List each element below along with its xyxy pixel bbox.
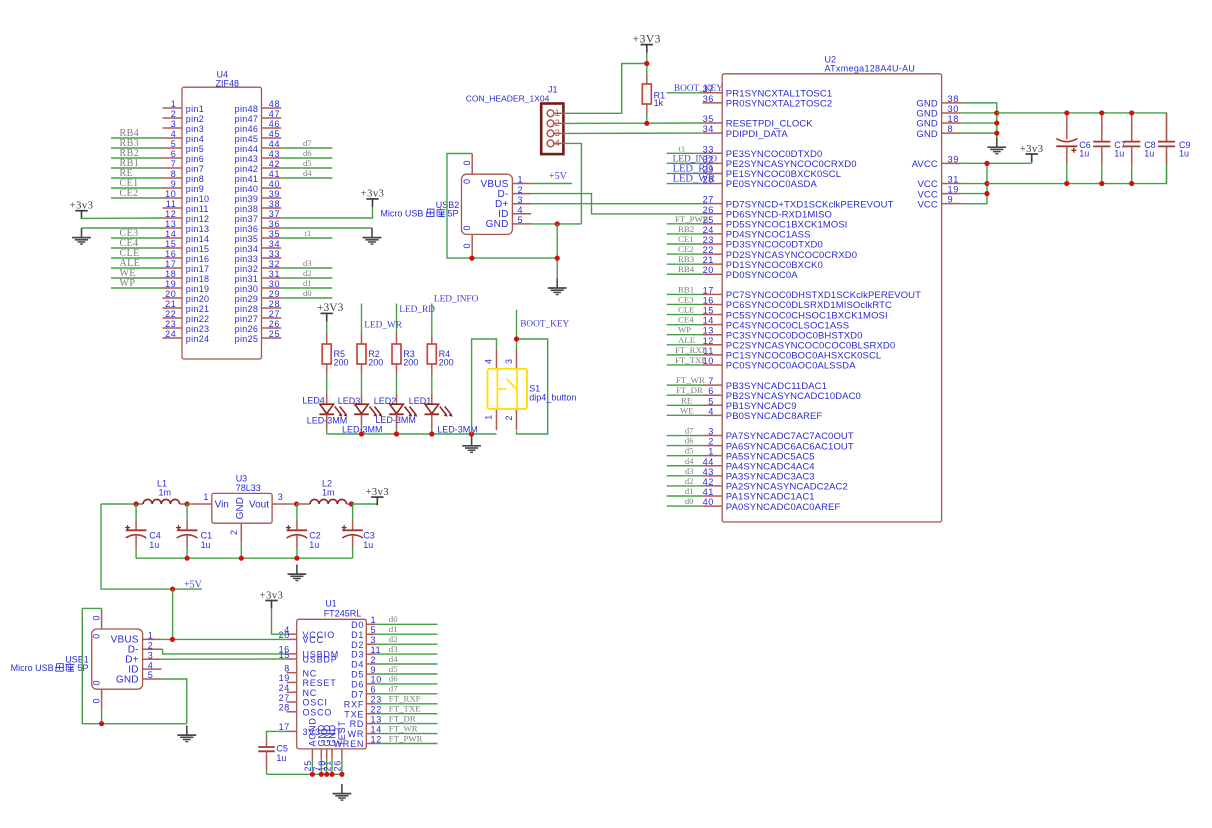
svg-text:d0: d0 [303,288,312,298]
svg-text:41: 41 [703,487,714,497]
wire net CE4 to U2 [667,324,703,326]
IC U4 ZIF48 body [182,87,262,359]
svg-text:d4: d4 [389,654,398,664]
svg-text:d5: d5 [389,664,398,674]
wire to resistor R4 [431,304,433,335]
junction LED rail [359,431,364,436]
junction cap top [1064,110,1069,115]
svg-text:28: 28 [269,299,280,309]
svg-text:FT_DR: FT_DR [676,385,703,395]
svg-text:CE1: CE1 [678,234,694,244]
junction rail/ground [469,431,474,436]
svg-text:1u: 1u [1179,149,1189,159]
svg-text:GND: GND [235,497,246,519]
wire net FT_WR from U1 pin 14 [376,733,438,735]
svg-text:19: 19 [279,673,290,683]
svg-text:200: 200 [334,357,349,367]
wire net CE2 to U2 [667,253,703,255]
svg-text:40: 40 [269,179,280,189]
svg-text:3: 3 [371,635,377,645]
svg-text:16: 16 [703,295,714,305]
svg-text:PD0SYNCOC0A: PD0SYNCOC0A [726,270,798,281]
wire U1 bottom gnd rail [267,773,342,775]
svg-text:GND: GND [486,219,509,230]
svg-text:1m: 1m [159,487,172,497]
svg-text:OSCI: OSCI [303,698,328,708]
wire USB1 D- to U1 USBDM [161,649,286,654]
svg-text:27: 27 [279,693,290,703]
svg-text:7: 7 [708,376,714,386]
svg-text:d7: d7 [389,684,398,694]
ground symbol below USB1 [186,726,188,736]
svg-text:4: 4 [171,129,177,139]
resistor R3 200 [392,334,401,374]
wire net d0 from U1 pin 1 [376,623,438,625]
wire +3v3 to U1 VCCIO [272,609,287,635]
wire net CE4 to U4 pin 15 [111,247,163,249]
svg-text:15: 15 [703,306,714,316]
wire net d5 from U1 pin 9 [376,673,438,675]
svg-text:ZIF48: ZIF48 [216,78,240,88]
svg-text:26: 26 [332,760,342,771]
svg-text:d1: d1 [685,486,694,496]
svg-text:D2: D2 [351,640,364,650]
capacitor C5 1u [258,731,286,774]
USB1 pin stubs and numbers [111,631,162,686]
wire L1 to U3 Vin [187,503,192,505]
svg-text:1u: 1u [201,540,211,550]
USB2 shield mount pin top [471,154,473,175]
ground symbol at U4 pin36 [371,228,373,238]
svg-text:RD: RD [350,719,365,729]
junction shield/gnd [469,256,474,261]
wire net FT_TXE from U1 pin 22 [376,713,438,715]
junction GND38/30 [994,110,999,115]
wire net d6 to U2 [667,445,703,447]
svg-text:24: 24 [279,683,290,693]
wire net CLE to U4 pin 16 [111,257,163,259]
svg-text:NC: NC [303,668,318,678]
U1 bottom pin numbers rotated [303,760,343,771]
wire USB1 GND to ground [161,679,186,724]
svg-text:pin6: pin6 [186,154,204,164]
junction VCC31 [984,181,989,186]
wire net WP to U2 [667,334,703,336]
wire net FT_PWR from U1 pin 12 [376,743,438,745]
svg-text:d6: d6 [389,674,398,684]
svg-text:pin39: pin39 [235,194,259,204]
svg-text:d3: d3 [389,644,398,654]
svg-text:24: 24 [703,225,714,235]
wire GND down to ground [556,224,558,279]
wire net CE1 to U2 [667,243,703,245]
U2 left pin numbers [703,84,714,507]
junction Vout [294,501,299,506]
svg-text:ATxmega128A4U-AU: ATxmega128A4U-AU [825,64,916,74]
svg-text:pin11: pin11 [186,204,209,214]
junction BOOT_KEY/S1 pin3 [514,336,519,341]
junction L2 right [349,501,354,506]
wire net FT_TXE to U2 [667,364,703,366]
connector USB2 Micro USB body [462,174,513,234]
wire J1 pin2 to U2 pin35 RESET [563,122,702,124]
svg-text:pin26: pin26 [235,324,259,334]
svg-text:pin5: pin5 [186,144,204,154]
wire LED gnd rail [327,433,497,435]
svg-text:d1: d1 [303,278,312,288]
svg-text:pin7: pin7 [186,164,204,174]
svg-text:VCC: VCC [917,199,937,210]
svg-text:pin1: pin1 [186,104,204,114]
resistor R5 200 [322,334,331,374]
svg-text:d4: d4 [303,168,312,178]
wire +5V down to USB1 VBUS [172,589,174,639]
wire net CE3 to U2 [667,303,703,305]
wire net FT_DR to U2 [667,394,703,396]
wire net d0 from U4 [281,297,332,299]
junction cap top [1099,110,1104,115]
resistor R1 [646,74,648,84]
ground symbol at U4 pin13 [81,228,83,238]
wire net d1 to U2 [667,495,703,497]
svg-text:LED_WR: LED_WR [673,174,716,185]
svg-text:pin34: pin34 [235,244,259,254]
svg-text:PC0SYNCOC0AOC0ALSSDA: PC0SYNCOC0AOC0ALSSDA [726,361,856,372]
svg-text:45: 45 [269,129,280,139]
wire net CE1 to U4 pin 9 [111,187,163,189]
svg-text:TEST: TEST [337,720,347,746]
wire U2 GND pins to ground [962,103,997,138]
svg-text:8: 8 [171,169,177,179]
svg-text:27: 27 [269,309,280,319]
svg-text:25: 25 [269,329,280,339]
svg-text:5: 5 [518,215,523,225]
junction cap bottom [1064,181,1069,186]
wire net CLE to U2 [667,314,703,316]
svg-text:RB1: RB1 [678,284,694,294]
U1 right pin names [333,620,364,749]
wire net FT_RXF from U1 pin 23 [376,703,438,705]
wire U2 AVCC/VCC pins [962,162,1032,164]
wire net d4 from U1 pin 2 [376,663,438,665]
svg-text:D4: D4 [351,660,364,670]
svg-text:PA0SYNCADC0AC0AREF: PA0SYNCADC0AC0AREF [726,502,841,513]
junction U3 GND bottom [239,556,244,561]
svg-text:36: 36 [703,94,714,104]
wire net FT_PWR to U2 [667,223,703,225]
wire U3 GND to rail [240,543,242,558]
svg-text:pin37: pin37 [235,214,259,224]
capacitor C4 1u polarized [125,504,146,558]
svg-text:CE2: CE2 [678,244,694,254]
svg-text:+3V3: +3V3 [317,302,344,314]
svg-text:26: 26 [269,319,280,329]
svg-text:44: 44 [703,457,714,467]
U1 right pin stubs [366,624,376,743]
junction GND/shield [555,256,560,261]
ground symbol below USB2 [556,278,558,288]
svg-text:18: 18 [948,114,959,124]
svg-text:pin47: pin47 [235,114,259,124]
svg-text:LED3: LED3 [338,396,361,406]
svg-text:U1: U1 [325,599,337,609]
wire net FT_RXF to U2 [667,354,703,356]
svg-text:0: 0 [462,243,472,248]
svg-text:42: 42 [703,477,714,487]
U3 Vin pin [192,503,212,505]
junction USB2 GND [555,221,560,226]
svg-text:3: 3 [518,195,523,205]
wire S1 left loop to gnd rail [472,339,497,434]
wire net d4 from U4 [281,177,332,179]
svg-text:0: 0 [91,680,101,685]
svg-text:41: 41 [269,169,280,179]
resistor R4 200 [427,334,436,374]
wire USB1 VBUS to U1 VCC [161,638,286,640]
junction VCC19 [984,191,989,196]
svg-text:46: 46 [269,119,280,129]
svg-text:pin45: pin45 [235,134,259,144]
svg-text:pin15: pin15 [186,244,210,254]
wire VCC top rail [997,113,1167,141]
svg-text:0: 0 [462,225,472,230]
svg-text:35: 35 [269,229,280,239]
svg-text:30: 30 [269,279,280,289]
svg-text:3: 3 [148,650,153,660]
svg-text:4: 4 [555,138,560,149]
svg-text:1u: 1u [309,540,319,550]
ground symbol right of U2 [996,138,998,148]
svg-text:d7: d7 [303,138,312,148]
wire +5V input from USB1 VBUS [101,503,136,505]
svg-text:78L33: 78L33 [236,483,261,493]
wire net RB4 to U4 pin 4 [111,137,163,139]
svg-text:pin44: pin44 [235,144,259,154]
svg-text:t1: t1 [679,143,686,153]
svg-text:23: 23 [165,319,176,329]
svg-text:pin18: pin18 [186,274,210,284]
wire net RE to U4 pin 8 [111,177,163,179]
svg-text:pin46: pin46 [235,124,259,134]
USB2 shield mount pin bottom [471,234,473,254]
svg-text:5P: 5P [78,663,89,673]
U4 right pins 48-25 stubs [262,108,282,338]
svg-text:pin43: pin43 [235,154,259,164]
svg-text:6: 6 [708,386,714,396]
svg-text:FT_WR: FT_WR [389,723,418,733]
svg-text:D1: D1 [351,630,364,640]
wire net LED_RD to U2 [667,172,703,174]
svg-text:d7: d7 [685,426,694,436]
svg-text:pin22: pin22 [186,314,210,324]
capacitor C3 1u polarized [342,504,363,558]
svg-text:1: 1 [371,615,377,625]
svg-text:WR: WR [348,729,365,739]
junction LED rail [429,431,434,436]
junction +5V vertical [170,587,175,592]
svg-text:C3: C3 [363,530,375,540]
svg-text:NC: NC [303,688,318,698]
svg-text:35: 35 [703,114,714,124]
LED LED3 [354,394,382,429]
svg-text:LED_RD: LED_RD [399,305,435,315]
wire U3 Vout [292,503,297,505]
wire net d6 from U1 pin 10 [376,683,438,685]
svg-text:RB3: RB3 [678,254,695,264]
inductor L1 1m [136,499,187,504]
svg-text:GND: GND [916,129,937,140]
wire net d4 to U2 [667,465,703,467]
svg-text:9: 9 [171,179,177,189]
wire net BOOT_KEY to U2 pin37 [667,92,703,94]
svg-text:RB4: RB4 [678,264,695,274]
svg-text:11: 11 [166,199,177,209]
U1 left pin stubs [287,634,297,731]
svg-text:FT_RXF: FT_RXF [389,694,421,704]
junction L1 left [134,501,139,506]
svg-text:6: 6 [371,685,377,695]
svg-text:RE: RE [681,395,692,405]
svg-text:pin17: pin17 [186,264,210,274]
wire LED3 to gnd rail [361,429,363,434]
svg-text:FT_TXE: FT_TXE [389,704,421,714]
wire resistor to LED2 [396,374,398,394]
wire net RB3 to U2 [667,263,703,265]
IC U2 ATxmega128A4U-AU body [722,74,941,522]
resistor R2 200 [357,334,366,374]
svg-text:FT_WR: FT_WR [676,375,705,385]
svg-text:23: 23 [703,235,714,245]
svg-text:RXF: RXF [344,699,364,709]
junction C2 bottom [294,556,299,561]
svg-text:pin10: pin10 [186,194,210,204]
svg-text:pin8: pin8 [186,174,204,184]
svg-text:d6: d6 [303,148,312,158]
wire USB2 GND net [531,223,581,225]
svg-text:t1: t1 [305,228,312,238]
svg-text:WP: WP [120,278,136,289]
svg-text:33: 33 [269,249,280,259]
svg-text:1u: 1u [363,540,373,550]
svg-text:33: 33 [703,144,714,154]
svg-text:AVCC: AVCC [912,159,938,170]
svg-text:Vout: Vout [249,500,269,511]
wire net d0 to U2 [667,505,703,507]
svg-text:pin3: pin3 [186,124,204,134]
svg-text:27: 27 [703,195,714,205]
svg-text:pin35: pin35 [235,234,259,244]
wire resistor to LED3 [361,374,363,394]
svg-text:pin48: pin48 [235,104,259,114]
capacitor C6 1u [1056,113,1077,184]
svg-text:pin30: pin30 [235,284,259,294]
wire net RB4 to U2 [667,273,703,275]
wire bottom gnd rail of U3 section [136,557,353,559]
svg-text:+3V3: +3V3 [633,33,661,45]
svg-text:12: 12 [165,209,176,219]
U4 right pin names pin48-pin25 [235,104,259,344]
wire U4 pin37 to +3v3 [281,207,372,218]
svg-text:dip4_button: dip4_button [529,392,576,402]
wire net d3 to U2 [667,475,703,477]
svg-text:CE2: CE2 [120,188,139,199]
svg-text:pin38: pin38 [235,204,259,214]
U2 right pin numbers [948,94,959,205]
svg-text:Micro USB: Micro USB [11,663,54,673]
svg-text:39: 39 [948,154,959,164]
U2 left pin names [726,89,921,513]
wire net ALE to U2 [667,344,703,346]
svg-text:C1: C1 [201,530,213,540]
svg-text:GND: GND [116,674,139,685]
junction GND18 [994,120,999,125]
USB2 pin stubs and numbers [480,175,531,231]
svg-text:pin14: pin14 [186,234,210,244]
U1 right pin numbers [371,615,382,744]
junction VBUS/+5V [170,637,175,642]
svg-text:44: 44 [269,139,280,149]
LED LED4 [319,394,347,429]
svg-text:CON_HEADER_1X04: CON_HEADER_1X04 [466,94,550,104]
wire net d6 from U4 [281,157,332,159]
junction L1 right [185,501,190,506]
svg-text:pin4: pin4 [186,134,204,144]
wire LED4 to gnd rail [326,429,328,434]
svg-text:200: 200 [368,357,383,367]
svg-text:1u: 1u [1144,149,1154,159]
wire net d1 from U4 [281,287,332,289]
wire USB2 D- to U2 pin26 [531,194,702,214]
svg-text:PE0SYNCOC0ASDA: PE0SYNCOC0ASDA [726,179,818,190]
svg-text:13: 13 [703,326,714,336]
svg-text:PB0SYNCADC8AREF: PB0SYNCADC8AREF [726,411,823,422]
wire U4 pin36 to ground [281,227,372,229]
svg-text:pin42: pin42 [235,164,259,174]
svg-text:CLE: CLE [678,305,695,315]
U4 right pin numbers 48-25 [269,99,280,339]
svg-text:pin40: pin40 [235,184,259,194]
capacitor C9 1u [1158,113,1175,184]
svg-text:LED_WR: LED_WR [364,321,402,331]
svg-text:d5: d5 [685,446,694,456]
capacitor C2 1u polarized [286,504,307,558]
svg-text:d3: d3 [303,258,312,268]
svg-text:d1: d1 [389,624,398,634]
svg-text:30: 30 [948,104,959,114]
svg-text:31: 31 [269,269,280,279]
wire net CE2 to U4 pin 10 [111,197,163,199]
svg-text:+5V: +5V [549,171,568,182]
capacitor C7 1u [1093,113,1110,184]
LED LED2 [389,394,417,429]
wire net RB2 to U4 pin 6 [111,157,163,159]
U4 left pins 1-24 stubs [163,108,183,338]
svg-text:BOOT_KEY: BOOT_KEY [520,319,569,329]
svg-text:RESET: RESET [303,678,337,688]
wire net LED_WR to U2 [667,183,703,185]
ground symbol below U1 [341,784,343,794]
svg-text:1u: 1u [1114,149,1124,159]
svg-text:0: 0 [91,615,101,620]
wire net t1 from U4 pin35 [281,237,332,239]
svg-text:CE4: CE4 [678,315,694,325]
wire net CE3 to U4 pin 14 [111,237,163,239]
svg-text:8: 8 [948,124,954,134]
U3 Vout pin [272,503,292,505]
svg-text:Micro USB: Micro USB [380,209,423,219]
svg-text:3: 3 [504,359,514,364]
wire LED1 to gnd rail [431,429,433,434]
